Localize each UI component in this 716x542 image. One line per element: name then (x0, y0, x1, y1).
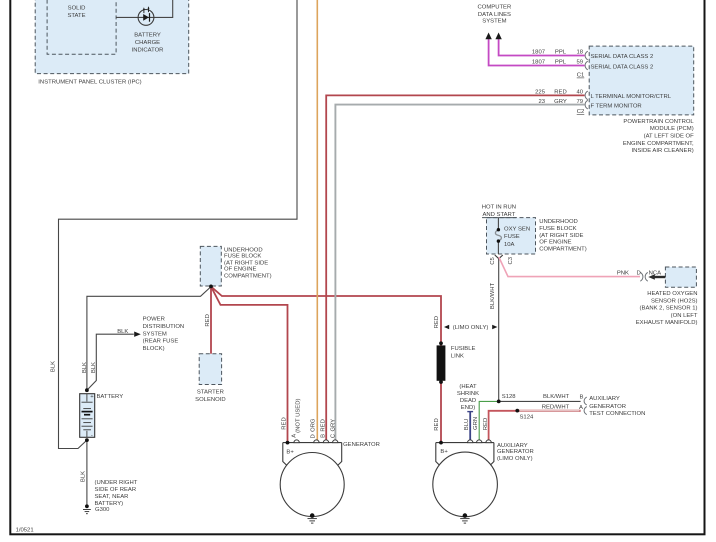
svg-text:HEATED OXYGEN: HEATED OXYGEN (647, 291, 697, 297)
svg-text:18: 18 (576, 50, 583, 56)
svg-text:+: + (90, 394, 94, 400)
svg-text:BATTERY: BATTERY (97, 394, 124, 400)
svg-text:AUXILIARY: AUXILIARY (589, 396, 620, 402)
svg-text:(LIMO ONLY): (LIMO ONLY) (497, 456, 533, 462)
svg-text:BLU: BLU (464, 419, 470, 430)
svg-text:NCA: NCA (649, 271, 662, 277)
svg-text:PPL: PPL (555, 50, 567, 56)
svg-text:GRY: GRY (554, 99, 567, 105)
svg-text:C5: C5 (490, 257, 496, 265)
svg-text:D ORG: D ORG (311, 418, 317, 438)
svg-text:UNDERHOOD: UNDERHOOD (224, 247, 263, 253)
svg-text:SENSOR (HO2S): SENSOR (HO2S) (651, 298, 698, 304)
svg-text:BLK: BLK (51, 361, 57, 372)
svg-text:GRN: GRN (473, 417, 479, 430)
svg-text:BLK: BLK (91, 362, 97, 373)
svg-text:B+: B+ (440, 449, 448, 455)
svg-text:FUSE: FUSE (504, 234, 520, 240)
svg-text:SERIAL DATA CLASS 2: SERIAL DATA CLASS 2 (591, 54, 654, 60)
svg-text:OF ENGINE: OF ENGINE (224, 267, 256, 273)
svg-text:BLK: BLK (81, 471, 87, 482)
svg-text:GENERATOR: GENERATOR (497, 449, 534, 455)
svg-text:FUSIBLE: FUSIBLE (451, 346, 476, 352)
svg-text:BATTERY: BATTERY (134, 32, 161, 38)
svg-text:79: 79 (576, 99, 583, 105)
svg-text:BLK: BLK (82, 362, 88, 373)
svg-text:SOLENOID: SOLENOID (195, 397, 225, 403)
svg-text:CHARGE: CHARGE (135, 40, 160, 46)
svg-text:59: 59 (576, 60, 583, 66)
svg-text:(HEAT: (HEAT (459, 384, 477, 390)
svg-text:C GRY: C GRY (331, 419, 337, 438)
svg-text:S124: S124 (520, 414, 534, 420)
svg-text:-: - (91, 433, 93, 439)
svg-text:STATE: STATE (67, 13, 85, 19)
svg-text:FUSE BLOCK: FUSE BLOCK (224, 254, 261, 260)
svg-text:A: A (579, 405, 583, 411)
svg-text:COMPUTER: COMPUTER (478, 5, 512, 11)
svg-text:ENGINE COMPARTMENT,: ENGINE COMPARTMENT, (623, 141, 694, 147)
svg-text:(AT LEFT SIDE OF: (AT LEFT SIDE OF (644, 134, 694, 140)
svg-text:(UNDER RIGHT: (UNDER RIGHT (95, 480, 138, 486)
svg-text:B+: B+ (286, 450, 294, 456)
svg-text:(BANK 2, SENSOR 1): (BANK 2, SENSOR 1) (640, 306, 698, 312)
svg-text:RED: RED (434, 418, 440, 430)
svg-text:C1: C1 (577, 73, 585, 79)
svg-text:PPL: PPL (555, 60, 567, 66)
svg-text:G300: G300 (95, 507, 110, 513)
svg-text:1807: 1807 (532, 60, 545, 66)
svg-text:COMPARTMENT): COMPARTMENT) (224, 274, 272, 280)
svg-text:SHRINK: SHRINK (457, 391, 479, 397)
svg-text:225: 225 (535, 90, 546, 96)
svg-text:C2: C2 (577, 109, 585, 115)
svg-text:GENERATOR: GENERATOR (343, 442, 380, 448)
svg-text:C3: C3 (508, 256, 514, 264)
svg-text:INSIDE AIR CLEANER): INSIDE AIR CLEANER) (631, 148, 693, 154)
svg-text:RED: RED (554, 90, 566, 96)
svg-text:A: A (291, 434, 297, 438)
svg-text:SEAT, NEAR: SEAT, NEAR (95, 494, 129, 500)
svg-text:PNK: PNK (617, 271, 629, 277)
svg-text:HOT IN RUN: HOT IN RUN (482, 205, 516, 211)
svg-text:10A: 10A (504, 242, 515, 248)
svg-text:S128: S128 (502, 394, 516, 400)
svg-text:RED: RED (281, 417, 287, 429)
svg-text:1807: 1807 (532, 50, 545, 56)
svg-text:RED/WHT: RED/WHT (542, 405, 570, 411)
svg-text:(NOT USED): (NOT USED) (295, 399, 301, 433)
svg-text:RED: RED (205, 314, 211, 326)
svg-text:EXHAUST MANIFOLD): EXHAUST MANIFOLD) (636, 320, 698, 326)
svg-text:B: B (580, 395, 584, 401)
svg-text:DEAD: DEAD (460, 398, 476, 404)
svg-text:(AT RIGHT SIDE: (AT RIGHT SIDE (539, 233, 583, 239)
svg-text:40: 40 (576, 90, 583, 96)
svg-text:SIDE OF REAR: SIDE OF REAR (95, 487, 137, 493)
svg-text:SYSTEM: SYSTEM (482, 18, 506, 24)
svg-text:END): END) (461, 405, 475, 411)
svg-text:INDICATOR: INDICATOR (132, 47, 164, 53)
svg-text:1/0521: 1/0521 (16, 527, 34, 533)
svg-text:BLK: BLK (117, 329, 128, 335)
svg-text:POWERTRAIN CONTROL: POWERTRAIN CONTROL (623, 119, 694, 125)
svg-text:SYSTEM: SYSTEM (143, 331, 167, 337)
svg-text:SOLID: SOLID (68, 6, 86, 12)
svg-text:OXY SEN: OXY SEN (504, 227, 530, 233)
svg-text:BLOCK): BLOCK) (143, 346, 165, 352)
svg-text:(LIMO ONLY): (LIMO ONLY) (453, 325, 489, 331)
svg-text:OF ENGINE: OF ENGINE (539, 240, 571, 246)
svg-text:MODULE (PCM): MODULE (PCM) (650, 126, 694, 132)
svg-text:23: 23 (538, 99, 545, 105)
svg-text:FUSE BLOCK: FUSE BLOCK (539, 226, 576, 232)
svg-text:UNDERHOOD: UNDERHOOD (539, 219, 578, 225)
svg-text:STARTER: STARTER (197, 389, 224, 395)
svg-text:BLK/WHT: BLK/WHT (543, 394, 570, 400)
svg-text:TEST CONNECTION: TEST CONNECTION (589, 411, 645, 417)
svg-text:DATA LINES: DATA LINES (478, 12, 511, 18)
svg-text:L TERMINAL MONITOR/CTRL: L TERMINAL MONITOR/CTRL (591, 94, 672, 100)
svg-text:COMPARTMENT): COMPARTMENT) (539, 247, 587, 253)
svg-text:SERIAL DATA CLASS 2: SERIAL DATA CLASS 2 (591, 64, 654, 70)
svg-text:RED: RED (483, 418, 489, 430)
svg-text:AND START: AND START (482, 212, 515, 218)
svg-text:INSTRUMENT PANEL CLUSTER (IPC): INSTRUMENT PANEL CLUSTER (IPC) (38, 80, 141, 86)
svg-text:(REAR FUSE: (REAR FUSE (143, 339, 179, 345)
svg-text:BLK/WHT: BLK/WHT (490, 283, 496, 310)
svg-text:(AT RIGHT SIDE: (AT RIGHT SIDE (224, 261, 268, 267)
svg-text:D: D (636, 271, 640, 277)
svg-text:GENERATOR: GENERATOR (589, 404, 626, 410)
svg-text:LINK: LINK (451, 354, 464, 360)
svg-text:RED: RED (434, 316, 440, 328)
svg-text:F TERM MONITOR: F TERM MONITOR (591, 104, 642, 110)
svg-text:POWER: POWER (143, 317, 165, 323)
svg-text:(ON LEFT: (ON LEFT (671, 313, 698, 319)
svg-text:DISTRIBUTION: DISTRIBUTION (143, 324, 185, 330)
svg-text:B RED: B RED (321, 419, 327, 438)
svg-text:AUXILIARY: AUXILIARY (497, 443, 528, 449)
